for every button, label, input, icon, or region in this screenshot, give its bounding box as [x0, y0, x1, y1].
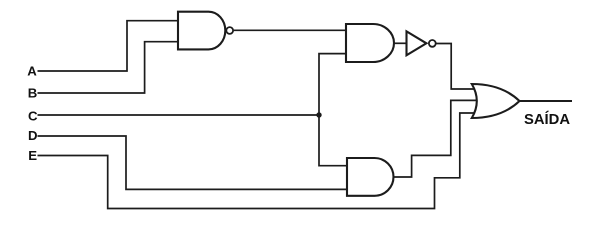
svg-text:SAÍDA: SAÍDA — [524, 111, 570, 128]
wire A to NAND U1 pin 1 — [38, 21, 179, 71]
wire C to node N1 — [38, 114, 320, 116]
svg-text:C: C — [28, 109, 38, 124]
AND gate U2 — [346, 24, 394, 62]
NAND gate U1 output bubble — [226, 27, 233, 34]
OR gate U5 — [472, 84, 520, 118]
NAND gate U1 body — [178, 12, 225, 50]
wire E to OR U5 pin 3 — [38, 113, 479, 209]
svg-text:D: D — [28, 128, 38, 143]
wire AND U4 output to OR U5 pin 2 — [393, 100, 484, 177]
wire node N1 to AND U2 pin 2 — [319, 54, 348, 115]
wire node N1 to AND U4 pin 1 — [319, 115, 349, 166]
wire D to AND U4 pin 2 — [38, 136, 350, 189]
NOT gate U3 triangle — [407, 31, 427, 55]
node N1 junction dot — [316, 112, 321, 117]
wire AND U2 output to NOT U3 input — [393, 42, 407, 44]
wire NAND U1 output to AND U2 pin 1 — [234, 29, 348, 31]
NOT gate U3 output bubble — [429, 40, 436, 47]
AND gate U4 — [347, 158, 394, 196]
wire OR U5 output SAIDA net — [520, 100, 573, 102]
svg-text:B: B — [28, 86, 38, 101]
svg-text:A: A — [27, 64, 37, 79]
svg-text:E: E — [28, 148, 37, 163]
wire NOT U3 output to OR U5 pin 1 — [436, 44, 478, 90]
wire B to NAND U1 pin 2 — [38, 42, 179, 93]
